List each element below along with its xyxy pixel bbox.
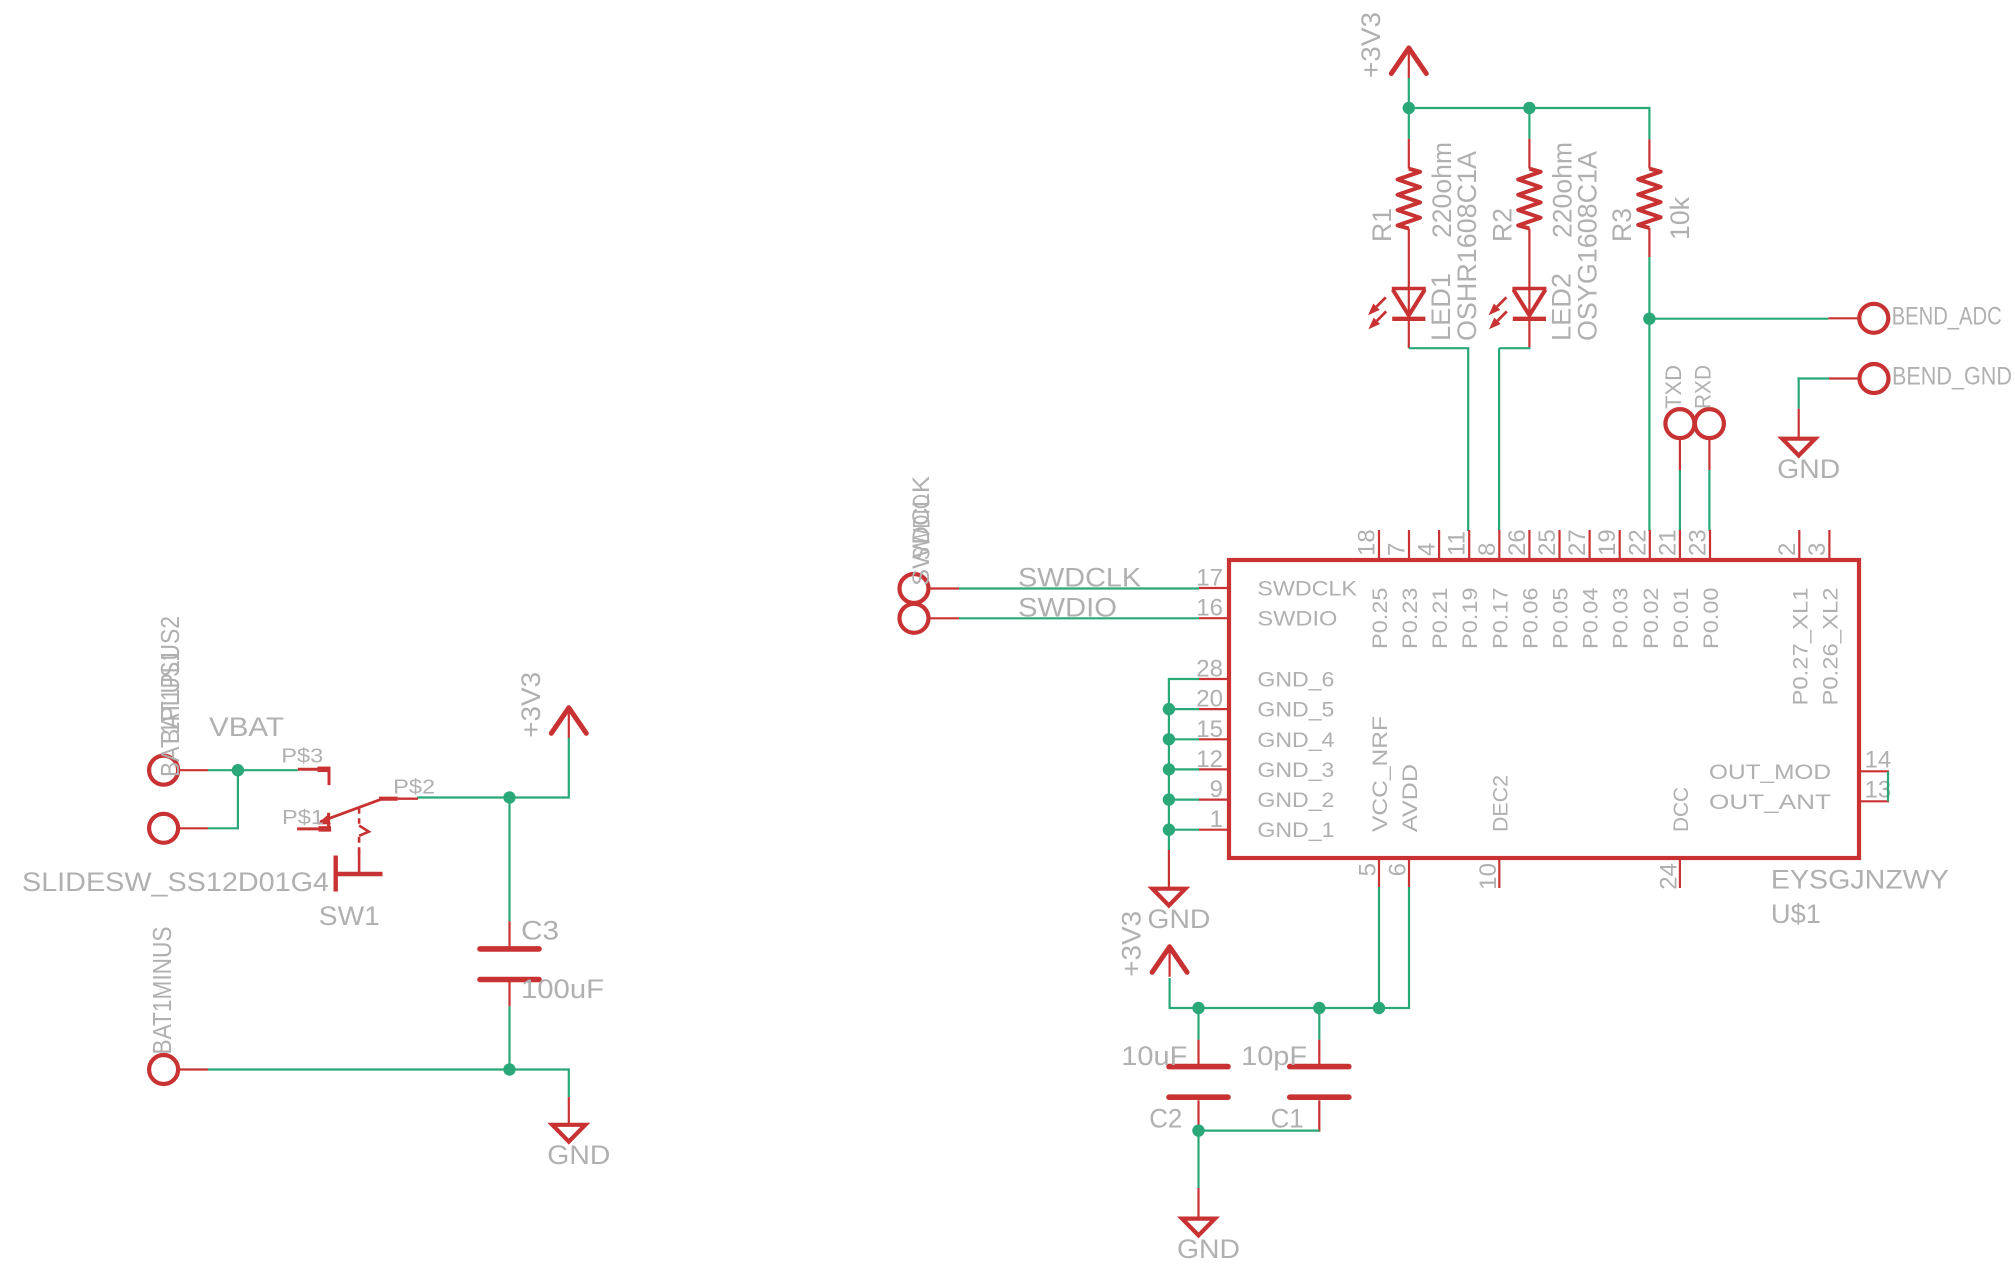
svg-text:6: 6 [1385, 863, 1412, 876]
svg-text:P0.27_XL1: P0.27_XL1 [1789, 588, 1812, 706]
svg-text:OUT_ANT: OUT_ANT [1709, 791, 1831, 814]
svg-text:GND_1: GND_1 [1257, 819, 1334, 842]
svg-text:24: 24 [1655, 863, 1682, 890]
svg-text:DEC2: DEC2 [1489, 775, 1512, 832]
svg-text:P0.17: P0.17 [1489, 588, 1512, 650]
svg-text:+3V3: +3V3 [1117, 911, 1147, 977]
svg-text:R3: R3 [1607, 208, 1637, 242]
svg-text:P0.05: P0.05 [1550, 588, 1573, 650]
svg-text:4: 4 [1414, 543, 1441, 556]
svg-text:17: 17 [1196, 565, 1223, 592]
svg-text:3: 3 [1804, 543, 1831, 556]
svg-text:16: 16 [1196, 595, 1223, 622]
svg-text:GND_3: GND_3 [1257, 759, 1334, 782]
svg-text:SWDCLK: SWDCLK [1018, 563, 1141, 593]
svg-text:C3: C3 [521, 916, 559, 946]
svg-text:GND: GND [547, 1140, 610, 1170]
svg-text:20: 20 [1196, 686, 1223, 713]
svg-text:BEND_ADC: BEND_ADC [1892, 302, 2002, 330]
svg-text:RXD: RXD [1690, 365, 1715, 409]
svg-text:26: 26 [1504, 529, 1531, 556]
svg-text:P0.02: P0.02 [1640, 588, 1663, 650]
svg-text:P$3: P$3 [281, 746, 323, 768]
svg-text:P0.26_XL2: P0.26_XL2 [1819, 588, 1842, 706]
svg-text:5: 5 [1355, 863, 1382, 876]
svg-text:P0.25: P0.25 [1369, 588, 1392, 650]
svg-text:P0.01: P0.01 [1670, 588, 1693, 650]
svg-text:R1: R1 [1367, 208, 1397, 242]
svg-text:U$1: U$1 [1771, 899, 1821, 929]
svg-text:SWDIO: SWDIO [909, 494, 936, 560]
svg-text:P0.03: P0.03 [1610, 588, 1633, 650]
svg-text:OUT_MOD: OUT_MOD [1709, 761, 1831, 784]
svg-text:SW1: SW1 [319, 901, 380, 931]
svg-text:15: 15 [1196, 716, 1223, 743]
svg-text:SWDIO: SWDIO [1018, 592, 1117, 622]
svg-text:9: 9 [1210, 776, 1223, 803]
svg-text:7: 7 [1384, 543, 1411, 556]
svg-text:10uF: 10uF [1121, 1041, 1187, 1071]
svg-text:22: 22 [1624, 529, 1651, 556]
svg-text:VBAT: VBAT [209, 712, 284, 742]
svg-text:28: 28 [1196, 656, 1223, 683]
svg-text:GND_5: GND_5 [1257, 699, 1334, 722]
svg-text:+3V3: +3V3 [516, 672, 546, 738]
svg-text:VCC_NRF: VCC_NRF [1369, 716, 1392, 832]
svg-text:P0.06: P0.06 [1519, 588, 1542, 650]
svg-text:P0.21: P0.21 [1429, 588, 1452, 650]
svg-text:27: 27 [1564, 529, 1591, 556]
svg-text:GND_4: GND_4 [1257, 729, 1334, 752]
svg-text:GND: GND [1777, 454, 1840, 484]
svg-text:BAT1PLUS2: BAT1PLUS2 [155, 616, 185, 744]
svg-text:GND: GND [1177, 1234, 1240, 1264]
svg-text:10k: 10k [1665, 197, 1695, 240]
svg-text:BAT1MINUS: BAT1MINUS [147, 927, 177, 1055]
svg-text:+3V3: +3V3 [1356, 12, 1386, 78]
svg-text:25: 25 [1534, 529, 1561, 556]
svg-text:P0.00: P0.00 [1700, 588, 1723, 650]
svg-text:R2: R2 [1487, 208, 1517, 242]
svg-text:SLIDESW_SS12D01G4: SLIDESW_SS12D01G4 [22, 867, 329, 897]
svg-text:18: 18 [1354, 529, 1381, 556]
svg-text:10pF: 10pF [1241, 1041, 1307, 1071]
svg-text:SWDIO: SWDIO [1257, 608, 1337, 631]
svg-text:SWDCLK: SWDCLK [1257, 578, 1357, 601]
svg-text:12: 12 [1196, 746, 1223, 773]
svg-text:10: 10 [1475, 863, 1502, 890]
svg-text:GND_2: GND_2 [1257, 789, 1334, 812]
svg-text:DCC: DCC [1670, 787, 1693, 832]
svg-text:14: 14 [1865, 746, 1892, 773]
svg-text:GND: GND [1147, 904, 1210, 934]
svg-text:21: 21 [1654, 529, 1681, 556]
svg-text:23: 23 [1685, 529, 1712, 556]
svg-text:AVDD: AVDD [1399, 764, 1422, 832]
svg-text:EYSGJNZWY: EYSGJNZWY [1771, 865, 1949, 895]
svg-text:GND_6: GND_6 [1257, 669, 1334, 692]
svg-text:C2: C2 [1149, 1104, 1182, 1134]
svg-text:100uF: 100uF [521, 974, 604, 1004]
svg-text:OSYG1608C1A: OSYG1608C1A [1573, 151, 1603, 341]
svg-text:TXD: TXD [1661, 365, 1686, 409]
svg-text:P0.23: P0.23 [1399, 588, 1422, 650]
svg-text:8: 8 [1474, 543, 1501, 556]
svg-text:P0.04: P0.04 [1580, 587, 1603, 649]
svg-text:P0.19: P0.19 [1459, 588, 1482, 650]
svg-text:P$1: P$1 [282, 807, 324, 829]
svg-text:2: 2 [1774, 543, 1801, 556]
svg-text:1: 1 [1210, 806, 1223, 833]
svg-text:P$2: P$2 [393, 776, 435, 798]
svg-text:19: 19 [1594, 529, 1621, 556]
svg-text:C1: C1 [1271, 1104, 1304, 1134]
svg-text:OSHR1608C1A: OSHR1608C1A [1452, 151, 1482, 341]
svg-text:BEND_GND: BEND_GND [1892, 362, 2012, 390]
svg-text:11: 11 [1444, 531, 1471, 556]
